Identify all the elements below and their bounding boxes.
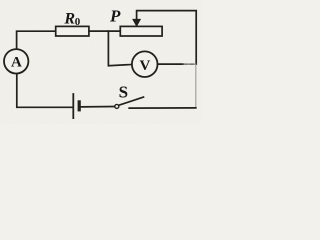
svg-text:R: R xyxy=(63,10,75,27)
wire: top-left horizontal from ammeter corner to R0 xyxy=(17,31,56,49)
rheostat P (box) xyxy=(120,26,162,36)
switch S: blade (open) xyxy=(119,97,144,105)
svg-text:V: V xyxy=(139,58,150,74)
battery (cell): long thin plate xyxy=(72,93,74,119)
wire: between R0 and potentiometer P xyxy=(89,30,121,32)
switch S: pivot circle xyxy=(115,104,119,108)
svg-text:A: A xyxy=(11,55,22,71)
wire: switch fixed contact to bottom-right xyxy=(129,107,196,109)
wire: battery to switch xyxy=(81,106,114,108)
paper background xyxy=(0,0,201,124)
wiper arrow of P xyxy=(133,18,140,26)
wire: right rail lower faint segment xyxy=(195,64,197,108)
ammeter A xyxy=(4,49,28,73)
svg-text:S: S xyxy=(119,83,128,102)
wire: voltmeter right lead to right rail xyxy=(157,63,183,65)
svg-text:P: P xyxy=(109,6,121,25)
battery (cell): short thick plate xyxy=(78,100,81,111)
wire: node to voltmeter (down then right) xyxy=(108,31,131,66)
svg-text:0: 0 xyxy=(75,16,81,28)
voltmeter V xyxy=(132,51,158,77)
resistor R0 (box) xyxy=(56,26,89,36)
wire: top-right rail from wiper to right edge, down xyxy=(137,11,197,65)
wire: ammeter bottom lead down to bottom-left corner xyxy=(17,74,73,108)
